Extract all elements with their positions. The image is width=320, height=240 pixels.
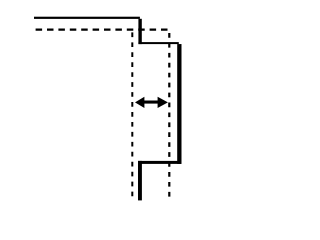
solid profile: lower horizontal ledge <box>138 161 181 164</box>
double-headed arrow: left head <box>135 97 144 108</box>
solid profile: step horizontal ledge <box>138 42 178 44</box>
dashed profile: top horizontal line <box>36 29 168 31</box>
dashed vertical left (gap boundary) <box>131 32 133 196</box>
dashed vertical right (gap boundary) <box>168 33 170 197</box>
solid profile: right long vertical <box>177 44 181 164</box>
double-headed arrow: shaft <box>142 101 161 104</box>
double-headed arrow: right head <box>158 97 168 108</box>
solid profile: bottom vertical <box>138 161 142 201</box>
solid profile: top horizontal line <box>34 17 140 19</box>
solid profile: upper step vertical <box>138 19 141 44</box>
